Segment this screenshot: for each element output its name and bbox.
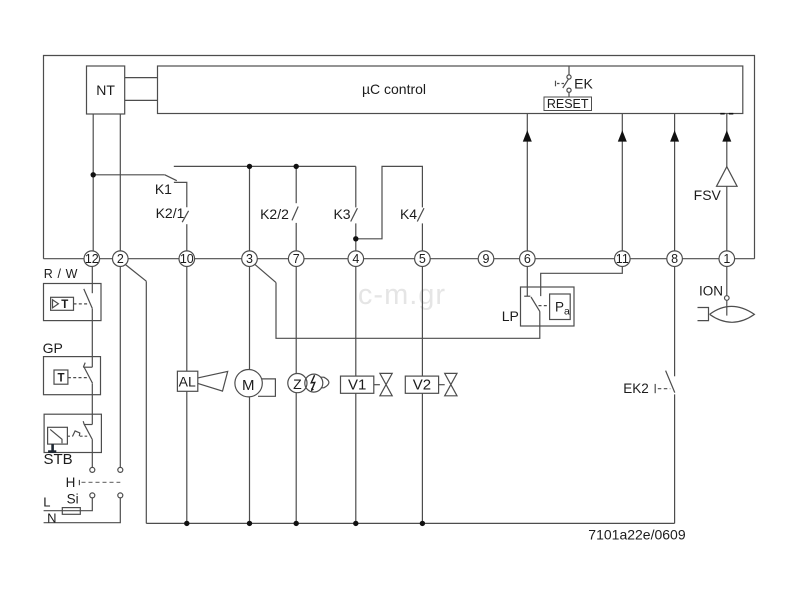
svg-text:Si: Si [67, 492, 79, 507]
pressure switch LP box [521, 287, 575, 326]
thermostat GP box [44, 357, 101, 395]
contact GP hook tick [83, 363, 85, 367]
svg-text:T: T [57, 373, 64, 385]
svg-text:N: N [47, 511, 56, 526]
wire K2/2 upper [295, 166, 297, 203]
wire terminal 6 to uC [526, 114, 528, 251]
ignition spark bolt [311, 375, 315, 389]
spark gap electrode horseshoe [321, 377, 329, 388]
svg-text:K1: K1 [155, 181, 172, 197]
wire terminal 12 to R/W [91, 267, 93, 294]
wire FSV to terminal 1 [726, 186, 728, 251]
svg-text:V1: V1 [348, 377, 366, 394]
electrode ION circle [725, 296, 730, 301]
wire terminal 7 to Z [295, 267, 297, 374]
wire terminal 8 to EK2 [674, 267, 676, 377]
svg-text:STB: STB [44, 451, 73, 468]
wire terminal 6 to LP [526, 267, 528, 297]
svg-text:11: 11 [616, 252, 629, 266]
svg-text:K2/2: K2/2 [260, 206, 289, 222]
switch EK blade [563, 79, 569, 88]
wire GP to STB [91, 383, 93, 424]
terminal 1 [719, 251, 735, 267]
switch EK contact circle upper [567, 75, 571, 79]
wire FSV upper [726, 114, 728, 168]
switch EK2 actuator tick [654, 384, 656, 393]
svg-text:R / W: R / W [44, 267, 78, 281]
valve V2 coil box [405, 376, 438, 393]
wire NT to terminal 12 [92, 114, 94, 251]
svg-text:6: 6 [524, 252, 531, 266]
thermostat R/W box [44, 284, 102, 321]
switch EK2 actuator dashes [658, 388, 671, 390]
wire K1 to K2/1 [174, 182, 187, 207]
terminal 5 [415, 251, 431, 267]
electrode ION rod [726, 300, 728, 315]
node junction net-terminal3 [247, 164, 252, 169]
wire K2/2 to terminal 7 [295, 223, 297, 251]
node bus M [247, 521, 252, 526]
wire R/W to GP [91, 309, 93, 367]
arrow into uC at 1 [722, 130, 731, 141]
contact STB blade [84, 424, 92, 440]
contact STB hook tick [83, 421, 84, 424]
wire V1 to valve body [374, 384, 380, 386]
node bus V1 [353, 521, 358, 526]
switch EK actuator tick [555, 81, 557, 87]
terminal 4 [348, 251, 364, 267]
svg-text:V2: V2 [413, 377, 431, 394]
svg-text:10: 10 [180, 252, 194, 266]
wire terminal 2 diagonal to bus [126, 265, 147, 282]
node junction on NT-12 wire [91, 172, 96, 177]
svg-text:K4: K4 [400, 206, 417, 222]
svg-text:NT: NT [96, 82, 115, 98]
alarm AL box [177, 371, 197, 391]
ignition Z circle left [288, 374, 307, 393]
wire terminal 10 to AL [186, 267, 188, 372]
contact STB fixed hook [84, 424, 92, 426]
svg-text:K3: K3 [333, 206, 350, 222]
connector circle left lower [90, 493, 95, 498]
node junction K3 output [353, 236, 358, 241]
valve V2 body [445, 373, 457, 395]
terminal 11 [615, 251, 631, 267]
arrow into uC at 8 [670, 130, 679, 141]
svg-text:M: M [242, 377, 255, 394]
wire terminal bus [44, 258, 755, 260]
svg-text:ION: ION [699, 283, 723, 298]
wire K1 branch [93, 174, 165, 176]
box NT [87, 66, 125, 114]
node junction net-K2/2 [294, 164, 299, 169]
dashed link STB right [80, 435, 88, 437]
link H dashed line [82, 481, 121, 483]
sensor T1 triangle [53, 300, 59, 308]
relay contact K2/2 blade [292, 207, 298, 221]
contact GP fixed hook [83, 366, 92, 368]
svg-text:LP: LP [502, 308, 519, 324]
wire LP return [276, 283, 540, 339]
motor M fan scroll [252, 379, 275, 396]
terminal 12 [84, 251, 100, 267]
wire net to terminal 3 [249, 166, 251, 251]
terminal 10 [179, 251, 195, 267]
switch EK wire upper [568, 66, 570, 75]
ignition spark bolt arrowhead [311, 388, 314, 392]
capillary bulb STB [48, 444, 56, 452]
svg-text:AL: AL [179, 373, 196, 389]
wire AL to bus [186, 391, 188, 523]
arrow into uC at 6 [523, 130, 532, 141]
ignition Z circle right [305, 374, 323, 392]
svg-text:T: T [61, 299, 68, 311]
svg-text:EK: EK [574, 75, 593, 91]
dashed actuator link T2 [68, 377, 89, 379]
terminal 3 [242, 251, 258, 267]
svg-text:12: 12 [85, 252, 99, 266]
sensor box Pa [550, 294, 571, 320]
connector circle right upper [118, 467, 123, 472]
wire EK2 to bus [674, 394, 676, 523]
wire NT to uC lower [125, 99, 158, 101]
wire terminal 2 down [119, 267, 121, 468]
node bus V2 [420, 521, 425, 526]
wire K3 upper [355, 166, 357, 207]
wire terminal 1 to ION [726, 267, 728, 296]
wire V2 to valve body [439, 384, 445, 386]
sensor STB diagonal [50, 429, 62, 443]
svg-text:9: 9 [483, 252, 490, 266]
burner ION nozzle [698, 308, 709, 321]
TERMINAL CIRCLES [84, 251, 735, 267]
terminal 6 [520, 251, 536, 267]
relay contact K1 blade [165, 175, 177, 181]
thermostat STB box [44, 414, 101, 452]
svg-text:RESET: RESET [547, 97, 589, 111]
sensor box T2 [54, 370, 68, 384]
terminal 2 [113, 251, 129, 267]
svg-text:H: H [66, 475, 76, 490]
sensor box T1 [51, 297, 74, 310]
wire terminal 3 to M [249, 267, 251, 370]
contact LP fixed tick [524, 295, 530, 297]
terminal 8 [667, 251, 683, 267]
svg-text:L: L [43, 495, 50, 510]
contact GP blade [84, 367, 93, 383]
svg-text:µC control: µC control [362, 81, 426, 97]
connector circle right lower [118, 493, 123, 498]
wire terminal 4 to V1 [355, 267, 357, 377]
link H actuator tick [78, 480, 80, 485]
fuse Si body [62, 508, 80, 515]
wire V2 to bus [421, 393, 423, 523]
svg-text:FSV: FSV [694, 187, 722, 203]
wire top net [174, 165, 356, 167]
relay contact K4 blade [417, 208, 424, 221]
wire bottom bus [146, 522, 674, 524]
wire terminal 11 to LP [541, 267, 623, 297]
svg-text:EK2: EK2 [623, 381, 649, 396]
svg-text:GP: GP [43, 340, 63, 356]
wire K2/1 to terminal 10 [186, 224, 188, 251]
wire Z to bus [295, 393, 297, 524]
svg-text:4: 4 [352, 252, 359, 266]
op box U1 uC control [158, 66, 743, 114]
terminal 7 [288, 251, 304, 267]
svg-text:3: 3 [246, 252, 253, 266]
wire right connector to N [44, 498, 121, 523]
valve V1 body [380, 373, 392, 395]
wire left connector to fuse [44, 498, 93, 511]
svg-text:Z: Z [293, 376, 302, 392]
svg-text:2: 2 [117, 252, 124, 266]
flame ION lens [710, 306, 755, 322]
wire NT to uC upper [125, 77, 158, 79]
svg-text:K2/1: K2/1 [156, 205, 185, 221]
relay contact K3 blade [351, 208, 358, 221]
wire terminal 3 diagonal [255, 264, 276, 282]
sensor box STB inner [48, 427, 68, 444]
svg-text:8: 8 [671, 252, 678, 266]
alarm AL horn [198, 371, 228, 391]
reset mechanism zigzag [73, 431, 80, 436]
svg-text:7: 7 [293, 252, 300, 266]
tick mark uC bottom edge right [729, 113, 733, 115]
contact LP blade [531, 297, 540, 311]
wire terminal 8 to uC [674, 114, 676, 251]
wire STB lower [91, 440, 93, 467]
connector circle left upper [90, 467, 95, 472]
dashed actuator link T1 [74, 303, 89, 305]
outer frame [44, 56, 755, 259]
wire K3 to terminal 4 [355, 223, 357, 251]
dashed link LP to Pa [539, 305, 550, 307]
switch EK2 blade [666, 371, 675, 393]
wire terminal 11 to uC [621, 114, 623, 251]
dashed link STB left [67, 435, 72, 437]
wire V1 to bus [355, 393, 357, 523]
wire K4 to terminal 5 [421, 223, 423, 251]
wire bus left riser [145, 281, 147, 523]
wire NT to terminal 2 [119, 114, 121, 251]
switch EK wire lower [568, 92, 570, 97]
switch EK actuator dashes [557, 83, 566, 85]
svg-text:1: 1 [723, 252, 730, 266]
tick mark uC bottom edge left [720, 113, 724, 115]
svg-text:7101a22e/0609: 7101a22e/0609 [588, 527, 686, 543]
wire M to bus [249, 397, 251, 524]
contact R/W blade [84, 289, 93, 309]
arrow into uC at 11 [618, 130, 627, 141]
switch EK contact circle lower [567, 88, 571, 92]
node bus AL [184, 521, 189, 526]
wire terminal 5 to V2 [421, 267, 423, 377]
svg-text:5: 5 [419, 252, 426, 266]
amplifier FSV triangle [717, 167, 738, 187]
RESET label box [544, 97, 592, 111]
terminal 9 [478, 251, 494, 267]
valve V1 coil box [341, 376, 374, 393]
wire K3 output loop to K4 [356, 166, 423, 238]
node bus Z [294, 521, 299, 526]
relay contact K2/1 blade [182, 211, 188, 222]
motor M circle [235, 370, 262, 397]
svg-text:c-m.gr: c-m.gr [358, 279, 446, 311]
